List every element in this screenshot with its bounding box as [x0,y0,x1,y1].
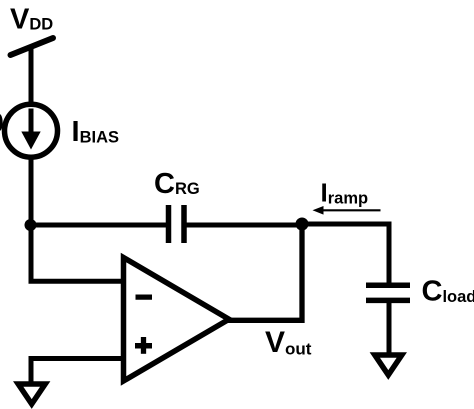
wire Cload to ground [387,303,392,355]
capacitor CRG [169,205,185,243]
wire op-amp output to node B [228,224,302,320]
node B junction [296,218,309,231]
wire op-amp noninverting input to ground [31,359,124,386]
ground right [375,355,402,375]
wire VDD slash to IBIAS [29,45,34,104]
wire IBIAS to node A [29,156,34,228]
wire node B to Cload branch [302,224,389,284]
current arrow Iramp [313,206,381,215]
ground left [18,384,45,404]
node A junction [25,219,37,231]
capacitor Cload [366,285,410,300]
current source IBIAS [5,104,58,157]
op-amp U1 [124,258,230,382]
wire node A to op-amp inverting input [31,225,124,281]
wire node A to CRG [28,223,166,228]
wire CRG to node B [187,223,303,228]
edge artifact mark at image left border [0,114,3,131]
power rail VDD slash [11,38,54,55]
